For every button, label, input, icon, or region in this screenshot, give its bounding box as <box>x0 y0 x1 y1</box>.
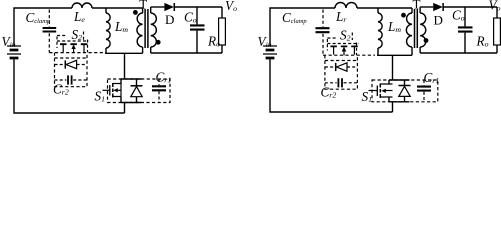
diode D <box>164 3 174 11</box>
svg-text:D: D <box>434 13 443 28</box>
svg-text:D: D <box>165 12 174 27</box>
svg-text:Cr1: Cr1 <box>156 70 172 85</box>
inductor Lr <box>335 3 357 9</box>
svg-text:Cr1: Cr1 <box>424 70 440 85</box>
capacitor Cclamp right <box>316 10 330 56</box>
wire output bottom rail <box>151 52 222 54</box>
capacitor Cr1 <box>152 79 166 103</box>
inductor Lm right <box>377 8 379 55</box>
wire S1 cell bottom right <box>389 97 410 102</box>
battery Vin right <box>263 46 277 54</box>
svg-text:S2: S2 <box>340 28 351 43</box>
wire top rail Lr to transformer right <box>357 7 412 9</box>
transformer T core right <box>415 9 418 48</box>
capacitor Cclamp <box>43 10 57 53</box>
svg-text:Lr: Lr <box>335 9 347 24</box>
polarity dot secondary right <box>424 38 429 43</box>
svg-text:Vo: Vo <box>489 0 501 13</box>
diode D right <box>433 3 443 11</box>
resistor Ro right <box>494 7 501 53</box>
wire battery positive to top rail <box>14 8 72 46</box>
dashed box S2 right <box>327 33 356 56</box>
wire S1 drain right <box>392 55 394 80</box>
switch S2 right <box>327 44 359 56</box>
transformer T primary winding <box>142 8 144 53</box>
svg-text:Cr2: Cr2 <box>321 85 337 100</box>
inductor Lm <box>105 8 107 53</box>
dashed box Cr2 D2 <box>55 53 88 87</box>
dashed box S2 <box>57 32 88 53</box>
svg-text:Lm: Lm <box>387 19 401 34</box>
wire S1 source to bottom rail right <box>392 102 394 112</box>
transformer T secondary winding <box>150 7 152 53</box>
svg-text:Cclamp: Cclamp <box>26 10 51 25</box>
transformer T primary winding right <box>411 8 413 55</box>
polarity dot secondary <box>156 40 161 45</box>
switch S2 <box>57 41 89 53</box>
wire battery positive to top rail right <box>270 8 335 46</box>
svg-text:Cr2: Cr2 <box>53 82 69 97</box>
wire S1 drain <box>124 53 126 79</box>
wire diode to output <box>174 6 222 8</box>
switch S1 mosfet right <box>369 84 393 99</box>
body diode of S1 right <box>399 80 411 102</box>
capacitor Co right <box>458 7 473 53</box>
dashed box S1 cell <box>108 79 171 103</box>
wire S1 cell bottom <box>121 97 142 103</box>
dashed box Cr2 D2 right <box>325 55 358 89</box>
svg-text:Le: Le <box>73 9 85 24</box>
wire S1 cell top <box>121 79 142 84</box>
svg-text:Co: Co <box>452 8 465 23</box>
capacitor Cr2 <box>55 75 88 84</box>
diode D2 <box>55 60 88 68</box>
capacitor Cr2 right <box>325 78 358 87</box>
wire battery negative to bottom rail <box>14 58 125 113</box>
svg-text:T: T <box>413 0 421 12</box>
wire dashed clamp branch to S1 drain node right <box>323 54 375 56</box>
transformer T secondary winding right <box>419 7 421 53</box>
resistor Ro <box>219 7 226 53</box>
svg-text:S1: S1 <box>362 89 373 104</box>
capacitor Cr1 right <box>417 80 431 102</box>
svg-text:Cclamp: Cclamp <box>282 10 307 25</box>
inductor Le <box>72 3 92 8</box>
wire primary bottom <box>105 52 143 54</box>
switch S1 mosfet <box>103 83 122 98</box>
wire output bottom rail right <box>420 52 497 54</box>
wire S1 cell top right <box>389 80 410 84</box>
wire battery negative to bottom rail right <box>270 58 393 112</box>
wire dashed clamp branch to S1 drain node <box>49 52 103 54</box>
wire secondary top to diode <box>151 6 165 8</box>
svg-text:T: T <box>139 0 147 12</box>
svg-text:Co: Co <box>184 10 197 25</box>
wire primary bottom right <box>377 54 412 56</box>
wire S1 source to bottom rail <box>124 103 126 114</box>
diode D2 right <box>325 63 358 71</box>
capacitor Co <box>190 7 205 53</box>
wire diode to output right <box>443 6 497 8</box>
wire top rail Le to transformer <box>92 7 143 9</box>
body diode of S1 <box>131 79 143 103</box>
polarity dot primary right <box>401 13 406 18</box>
dashed box S1 cell right <box>372 80 438 102</box>
svg-text:Lm: Lm <box>114 19 128 34</box>
wire secondary top to diode right <box>420 6 433 8</box>
svg-text:Vo: Vo <box>225 0 237 13</box>
transformer T core <box>145 9 148 48</box>
battery Vin <box>7 46 21 54</box>
polarity dot primary <box>133 10 138 15</box>
svg-text:S2: S2 <box>72 27 83 42</box>
svg-text:Ro: Ro <box>476 34 489 49</box>
